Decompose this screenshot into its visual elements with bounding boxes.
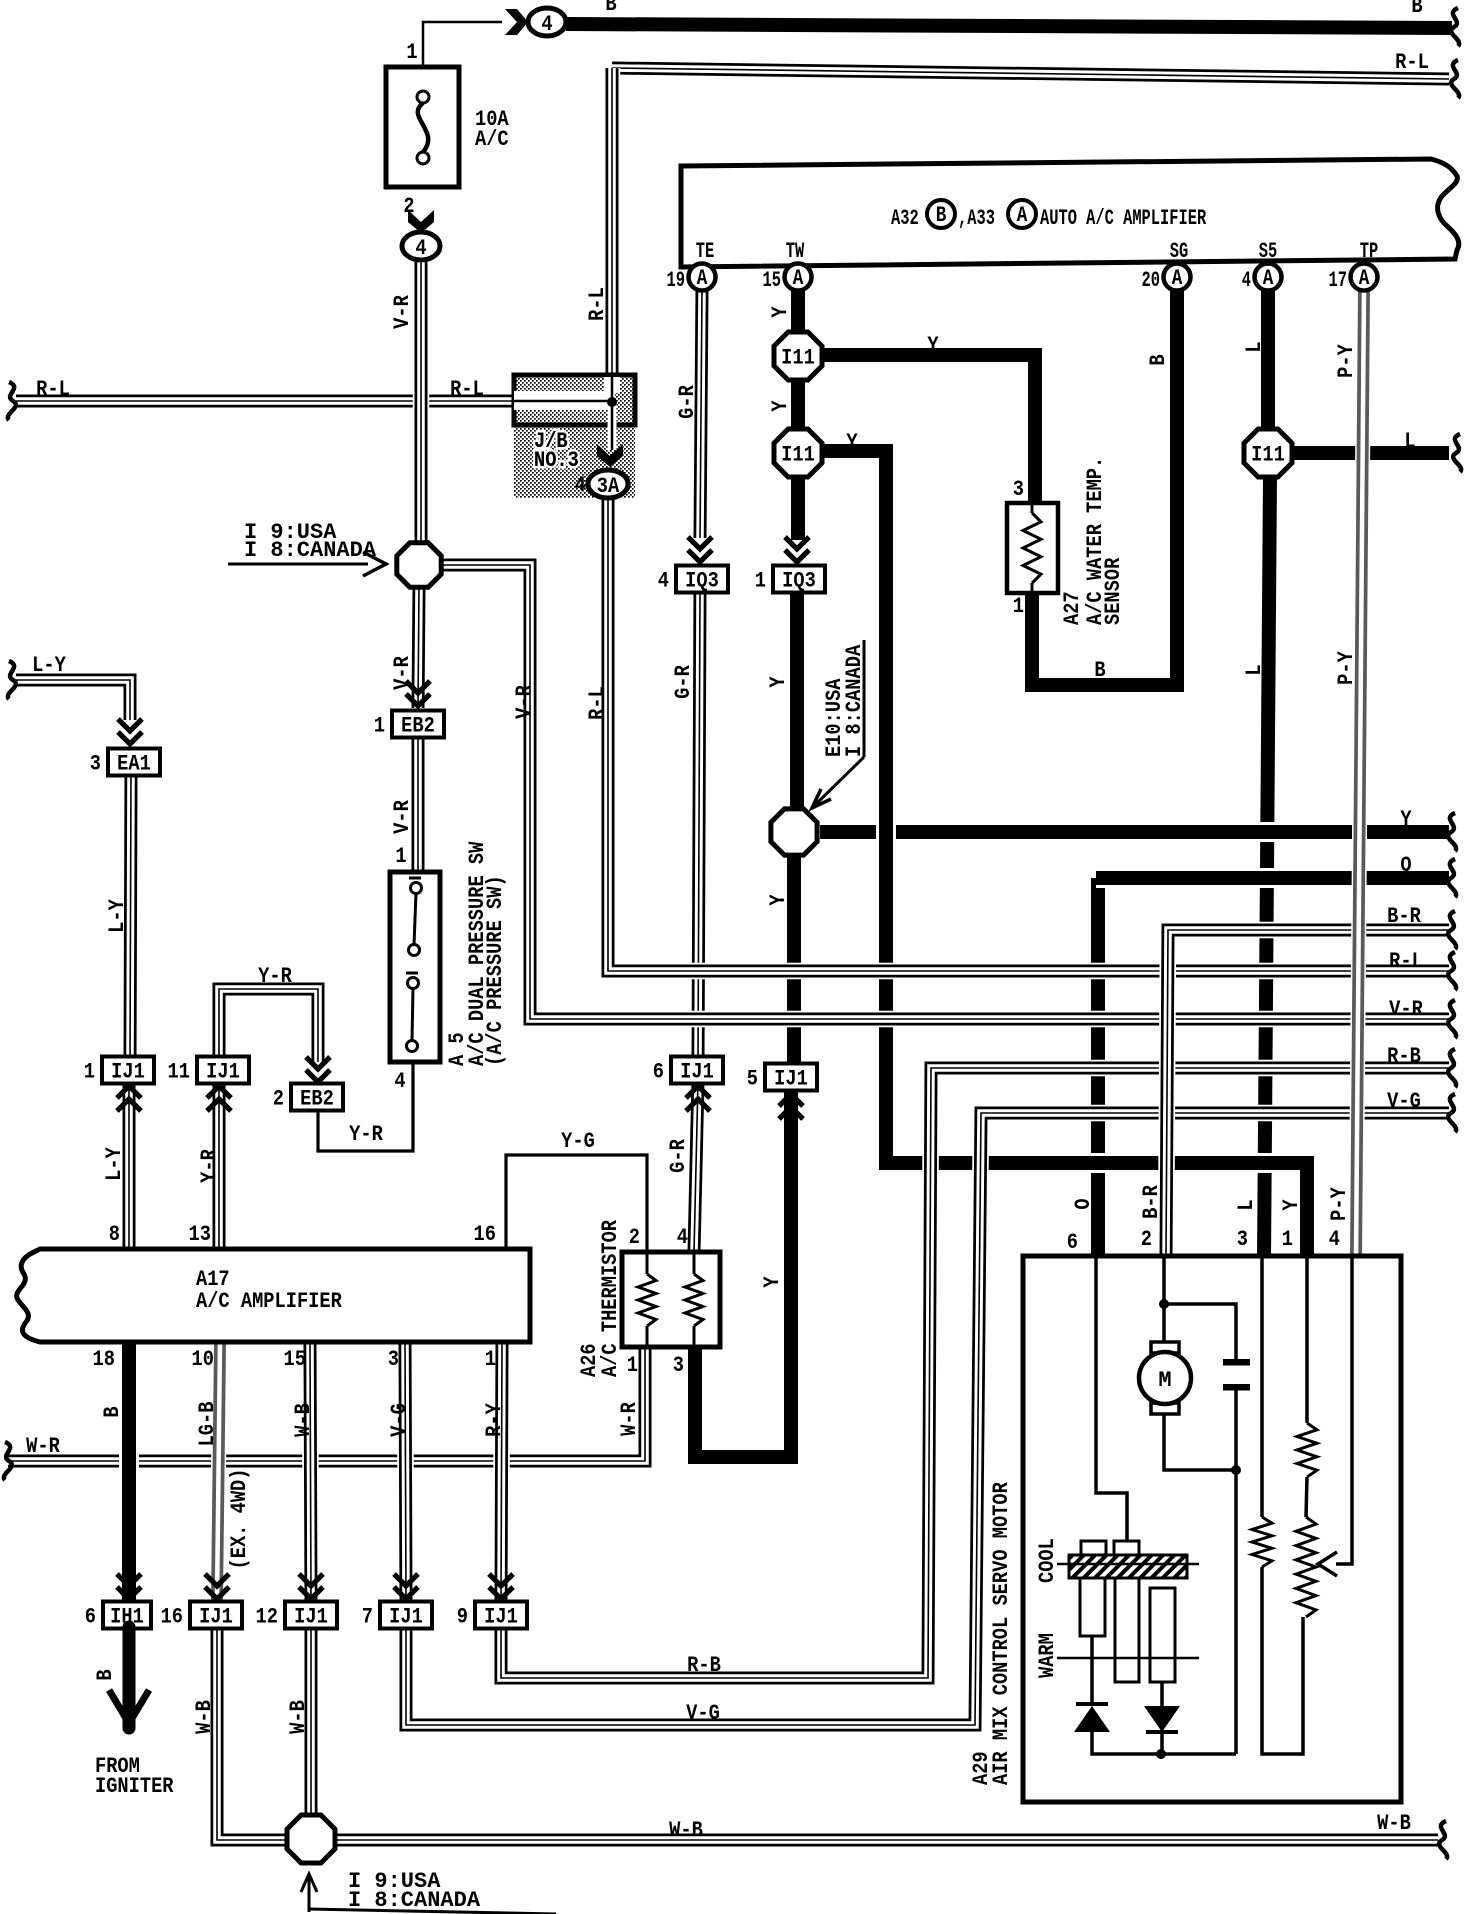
svg-text:B-R: B-R [1387,905,1421,930]
wire W-B from 16 IJ1 to junction octagon [217,1627,288,1840]
servo pin 1 line [1305,1256,1309,1423]
svg-text:A/C THERMISTOR: A/C THERMISTOR [599,1219,624,1377]
svg-text:R-B: R-B [1387,1045,1421,1070]
wire V-G from 7 IJ1 to right edge [406,1113,1449,1725]
wire W-R from left edge to thermistor pin 1 [8,1349,645,1461]
capacitor to bottom bus [1234,1390,1238,1754]
junction connector I11 on S5 line [1244,429,1292,477]
svg-text:S5: S5 [1259,238,1277,263]
arrow into 3 EA1 [118,719,142,744]
connector 6 IJ1 [653,1057,723,1086]
junction dot below capacitor [1231,1465,1241,1475]
svg-text:4: 4 [575,474,586,499]
svg-text:IJ1: IJ1 [206,1060,240,1085]
arrow into 4 IQ3 [688,537,712,562]
svg-text:IJ1: IJ1 [484,1605,518,1630]
wire Y-G from amplifier pin 16 to thermistor pin 2 [506,1155,647,1252]
svg-text:12: 12 [256,1605,278,1630]
svg-text:A: A [793,265,804,290]
wire B from amplifier pin 18 to 6 IH1 and igniter [119,1344,139,1620]
wire L from amplifier pin S5 4 to I11 [1258,290,1278,431]
motor bottom wire to junction [1164,1414,1236,1470]
svg-text:V-R: V-R [391,799,416,833]
svg-text:V-R: V-R [513,684,538,718]
wire V-R from 1 EB2 to dual pressure switch pin 1 [410,737,427,872]
wire Y from E10 octagon to right edge [820,822,1449,842]
svg-text:5: 5 [747,1067,758,1092]
wire V-R branch from octagon to right edge [443,565,1449,1019]
servo pin 3 line [1260,1256,1264,1517]
arrow into connector 3A [597,444,623,467]
svg-text:V-R: V-R [391,294,416,328]
junction I9/I8 octagon on V-R [397,543,441,587]
svg-text:TE: TE [696,238,714,263]
diode 2 to bus [1160,1732,1164,1754]
svg-text:IJ1: IJ1 [111,1060,145,1085]
svg-text:Y-G: Y-G [561,1130,595,1155]
right edge curl R-B [1448,1049,1456,1087]
resistor on pin 1 [1297,1423,1317,1477]
svg-text:1: 1 [627,1354,638,1379]
from-igniter arrow tail [109,1627,149,1728]
wire Y from I11 to servo motor pin 1 [822,451,1307,1258]
svg-text:L-Y: L-Y [103,1146,128,1180]
svg-text:L: L [1235,1199,1260,1210]
svg-text:SG: SG [1170,238,1188,263]
wire O vertical to servo motor pin 6 [1088,878,1108,1258]
svg-text:R-L: R-L [450,378,484,403]
callout E10:USA / I 8:CANADA [812,640,868,808]
svg-text:L-Y: L-Y [32,654,66,679]
arrow into 6 IJ1 [686,1086,710,1111]
pin 3 resistor to pot bottom [1262,1567,1303,1754]
svg-text:R-L: R-L [1395,51,1429,76]
svg-text:COOL: COOL [1036,1538,1061,1583]
servo pin 6 line to slider contact [1096,1256,1127,1541]
A26 resistor 2 [685,1274,703,1326]
svg-text:2: 2 [273,1087,284,1112]
amplifier pin 19 A (TE) [667,264,716,293]
connector 4 oval (top) [528,8,566,38]
svg-text:10: 10 [192,1348,214,1373]
svg-text:13: 13 [189,1223,211,1248]
svg-text:IJ1: IJ1 [680,1060,714,1085]
wire R-L from left edge to J/B No.3 [16,393,514,410]
svg-text:1: 1 [1282,1228,1293,1253]
A26 A/C thermistor [622,1252,720,1347]
junction I9/I8 octagon bottom [287,1815,335,1863]
svg-text:3: 3 [90,752,101,777]
svg-text:TP: TP [1360,238,1378,263]
svg-text:6: 6 [1067,1231,1078,1256]
wire from fuse pin 1 to connector 4 [423,22,502,86]
svg-text:WARM: WARM [1036,1633,1061,1678]
svg-text:19: 19 [667,267,685,292]
wire V-R from octagon to 1 EB2 [418,588,419,708]
svg-text:4: 4 [658,569,669,594]
svg-text:Y: Y [1400,808,1412,833]
wire Y-R from 2 EB2 to dual pressure switch pin 4 [318,1064,413,1151]
right edge curl V-R [1448,1000,1456,1038]
connector 12 IJ1 [256,1602,337,1631]
right edge curl R-L top [1451,60,1459,98]
wire W-B from 12 IJ1 to junction octagon [303,1627,320,1817]
svg-text:R-L: R-L [36,378,70,403]
right edge curl B [1451,8,1459,46]
connector 16 IJ1 [161,1602,242,1631]
svg-text:IJ1: IJ1 [294,1605,328,1630]
svg-text:IGNITER: IGNITER [95,1775,174,1800]
svg-text:A/C: A/C [475,128,509,153]
svg-text:(EX. 4WD): (EX. 4WD) [228,1469,253,1570]
svg-text:6: 6 [85,1605,96,1630]
svg-text:3: 3 [1013,478,1024,503]
svg-text:A: A [1263,265,1274,290]
junction dot bottom bus [1156,1749,1166,1759]
svg-text:L-Y: L-Y [106,898,131,932]
wire to capacitor [1164,1304,1236,1360]
svg-text:A: A [1017,202,1028,227]
svg-text:Y: Y [846,431,858,456]
wire Y from E10 octagon to 5 IJ1 [784,857,804,1063]
svg-text:I11: I11 [781,443,815,468]
svg-text:IQ3: IQ3 [685,569,719,594]
svg-text:6: 6 [653,1060,664,1085]
bottom bus [1092,1732,1236,1754]
svg-text:4: 4 [1329,1228,1340,1253]
wire W-B from junction octagon to right edge [336,1832,1438,1849]
svg-text:I 8:CANADA: I 8:CANADA [244,538,377,563]
svg-text:AIR MIX CONTROL SERVO MOTOR: AIR MIX CONTROL SERVO MOTOR [990,1481,1015,1785]
right edge curl R-L [1448,952,1456,990]
arrow into 1 EB2 [406,681,430,706]
svg-text:LG-B: LG-B [196,1402,221,1447]
wire O to right edge [1096,868,1449,888]
svg-text:R-B: R-B [687,1654,721,1679]
wire element3 to diode 2 [1160,1682,1164,1706]
wire Y from I11 to A27 sensor pin 3 [822,355,1035,503]
amplifier pin 17 A (TP) [1329,264,1378,293]
wire LG-B (EX.4WD) from amplifier pin 10 to 16 IJ1 [217,1344,220,1600]
arrow into 1 IQ3 [785,537,809,562]
connector 7 IJ1 [362,1602,432,1631]
arrow into 2 EB2 [306,1057,330,1082]
connector 11 IJ1 [168,1057,249,1086]
potentiometer resistor [1296,1517,1316,1617]
svg-text:L: L [1404,430,1415,455]
svg-text:IQ3: IQ3 [782,569,816,594]
svg-text:SENSOR: SENSOR [1102,557,1127,625]
svg-text:(A/C PRESSURE SW): (A/C PRESSURE SW) [484,875,509,1066]
resistor on pin 3 [1252,1517,1272,1567]
capacitor [1223,1359,1250,1391]
svg-text:L: L [1243,664,1268,675]
arrow into 5 IJ1 [779,1094,803,1119]
diode 2 (down) [1144,1706,1180,1732]
callout I 9:USA / I 8:CANADA [228,520,386,576]
wire V-G from amplifier pin 3 to 7 IJ1 [405,1344,406,1600]
wire B from fuse connector 4 to right edge [566,24,1452,28]
svg-text:W-B: W-B [292,1403,317,1437]
svg-text:O: O [1072,1198,1097,1209]
hatched slider bar [1057,1555,1199,1578]
wire R-L from junction block to right edge top [612,68,1449,79]
connector 5 IJ1 [747,1064,817,1093]
A27 resistor element [1023,513,1041,583]
svg-text:2: 2 [629,1226,640,1251]
svg-text:15: 15 [763,267,781,292]
arrow into 9 IJ1 [489,1574,513,1599]
svg-text:G-R: G-R [667,1138,692,1172]
svg-text:I 8:CANADA: I 8:CANADA [348,1888,481,1913]
link between resistors [1306,1477,1307,1517]
svg-text:R-L: R-L [586,686,611,720]
svg-text:1: 1 [84,1060,95,1085]
svg-text:L: L [1243,341,1268,352]
connector 1 IQ3 [755,566,825,595]
svg-text:A: A [1172,265,1183,290]
wire G-R from 6 IJ1 to thermistor pin 4 [694,1081,698,1252]
svg-text:1: 1 [395,845,406,870]
A26 resistor 1 [638,1274,656,1326]
right edge curl B-R [1448,911,1456,949]
left edge curl L-Y [8,661,16,699]
svg-text:W-B: W-B [1377,1812,1411,1837]
servo pin 4 line to wiper [1336,1256,1352,1564]
wire R-B from 9 IJ1 to right edge [501,1068,1449,1678]
svg-text:IJ1: IJ1 [199,1605,233,1630]
callout I 9:USA / I 8:CANADA bottom [301,1869,556,1914]
right edge curl W-B [1439,1821,1447,1859]
svg-text:NO.3: NO.3 [534,449,579,474]
wire Y from I11 to connector 1 IQ3 [788,477,808,540]
arrow into 1 IJ1 [117,1086,141,1111]
svg-text:AUTO A/C AMPLIFIER: AUTO A/C AMPLIFIER [1040,205,1207,230]
arrow into 11 IJ1 [207,1086,231,1111]
amplifier title text [891,200,1207,231]
svg-text:EA1: EA1 [117,752,151,777]
svg-text:B: B [1411,0,1422,20]
svg-text:B: B [101,1406,126,1417]
svg-text:B: B [1147,354,1172,365]
svg-text:3: 3 [673,1354,684,1379]
svg-text:7: 7 [362,1605,373,1630]
svg-text:V-G: V-G [1387,1090,1421,1115]
wire B-R from right edge to servo motor pin 2 [1166,930,1449,1258]
right edge curl L [1453,434,1461,472]
wire G-R from amplifier pin TE 19 to 4 IQ3 [700,290,702,538]
wire L-Y from 1 IJ1 to amplifier pin 8 [121,1082,138,1250]
arrow into 16 IJ1 [205,1574,229,1599]
A29 air mix control servo motor box [1023,1256,1401,1802]
wiper arrowhead [1318,1552,1337,1576]
A17 A/C amplifier box [17,1249,530,1342]
svg-text:Y: Y [767,894,792,906]
amplifier pin 20 A (SG) [1142,264,1191,293]
connector 2 EB2 [273,1084,343,1113]
arrow into connector 4 below fuse [408,210,434,233]
wire Y-R from 11 IJ1 to amplifier pin 13 [211,1082,228,1250]
wire R-L from J/B 3A connector to right edge [608,500,1449,971]
svg-text:Y: Y [769,306,794,318]
amplifier pin 4 A (S5) [1242,264,1282,293]
wire W-B from amplifier pin 15 to 12 IJ1 [310,1344,311,1600]
svg-text:20: 20 [1142,267,1160,292]
svg-text:A27: A27 [1061,591,1086,625]
wire Y-R from 11 IJ1 to 2 EB2 [219,989,318,1062]
svg-text:W-B: W-B [193,1700,218,1734]
motor M [1139,1342,1191,1414]
svg-text:IJ1: IJ1 [389,1605,423,1630]
svg-text:A: A [1359,265,1370,290]
svg-text:P-Y: P-Y [1328,1186,1353,1220]
svg-text:B-R: B-R [1140,1184,1165,1218]
svg-text:Y: Y [761,1276,786,1288]
wire P-Y from amplifier pin TP 17 to servo motor pin 4 [1356,290,1364,1258]
svg-text:A/C AMPLIFIER: A/C AMPLIFIER [196,1290,342,1315]
svg-text:I11: I11 [1251,443,1285,468]
svg-text:1: 1 [406,41,417,66]
arrow into connector 4 [505,9,528,35]
svg-text:O: O [1400,854,1411,879]
fuse 10A A/C [386,67,459,187]
svg-text:B: B [605,0,616,18]
svg-text:V-G: V-G [388,1403,413,1437]
connector 4 oval below fuse [402,232,440,262]
auto A/C amplifier A32/A33 box [681,159,1459,267]
svg-text:G-R: G-R [672,664,697,698]
svg-text:Y: Y [767,676,792,688]
wire L from I11 to right edge [1293,443,1449,463]
junction connector I11 upper [774,332,822,380]
connector 1 IJ1 [84,1057,154,1086]
servo pin 2 line to motor [1162,1256,1166,1342]
svg-text:W-R: W-R [26,1435,60,1460]
svg-text:I11: I11 [781,346,815,371]
svg-text:18: 18 [93,1348,115,1373]
svg-text:P-Y: P-Y [1335,343,1360,377]
svg-text:G-R: G-R [676,384,701,418]
svg-text:2: 2 [1141,1228,1152,1253]
svg-text:16: 16 [474,1223,496,1248]
svg-text:B: B [94,1669,119,1680]
wire L from I11 to servo motor pin 3 [1264,477,1270,1258]
junction connector I11 lower [774,429,822,477]
svg-text:Y-R: Y-R [198,1148,223,1182]
svg-text:W-B: W-B [669,1819,703,1844]
wire Y from 5 IJ1 to thermistor pin 3 [695,1090,791,1457]
svg-text:4: 4 [1242,267,1251,292]
svg-text:9: 9 [457,1605,468,1630]
svg-text:3: 3 [1237,1228,1248,1253]
svg-text:4: 4 [541,13,552,38]
svg-text:4: 4 [394,1070,405,1095]
svg-text:3A: 3A [597,475,620,500]
svg-text:IJ1: IJ1 [774,1067,808,1092]
connector 3A oval [588,470,628,500]
connector 9 IJ1 [457,1602,527,1631]
svg-text:17: 17 [1329,267,1347,292]
resistive elements [1080,1578,1175,1682]
arrow into 7 IJ1 [394,1574,418,1599]
svg-text:11: 11 [168,1060,190,1085]
wire Y from 1 IQ3 to E10 junction octagon [787,592,807,808]
wire Y between I11 junctions [788,380,808,430]
right edge curl O [1448,859,1456,897]
connector 3 EA1 [90,749,160,778]
diode 1 (up) [1074,1704,1110,1732]
junction dot at pin 2 [1159,1299,1169,1309]
svg-text:B: B [1094,659,1105,684]
wire V-R from fuse connector to junction octagon [413,260,430,542]
right edge curl Y [1448,813,1456,851]
svg-text:A32: A32 [891,205,919,230]
svg-text:8: 8 [109,1223,120,1248]
wire R-L vertical into J/B No.3 [604,68,621,380]
connector 6 IH1 [85,1602,151,1631]
svg-text:TW: TW [786,238,805,263]
A5 dual pressure switch [390,872,440,1062]
wire R-Y from amplifier pin 1 to 9 IJ1 [501,1344,502,1600]
svg-text:Y-R: Y-R [258,965,292,990]
svg-text:Y: Y [927,334,939,359]
left edge curl R-L [8,382,16,420]
svg-text:M: M [1158,1368,1171,1393]
wire B from A27 sensor pin 1 to amplifier pin SG 20 [1032,290,1177,685]
svg-text:P-Y: P-Y [1335,650,1360,684]
left edge curl W-R [4,1442,12,1480]
svg-text:A: A [697,265,708,290]
svg-text:Y: Y [769,400,794,412]
junction block J/B No.3 (shaded) [514,375,635,498]
svg-text:1: 1 [1013,595,1024,620]
svg-text:4: 4 [415,237,426,262]
warm line [1057,1657,1199,1660]
junction E10/I8 octagon [771,809,817,855]
svg-text:B: B [936,202,947,227]
svg-text:EB2: EB2 [401,714,435,739]
wire L-Y from 3 EA1 to 1 IJ1 [130,775,131,1060]
wire L-Y from left edge to 3 EA1 [16,680,130,720]
arrow into 6 IH1 [117,1574,141,1599]
A27 A/C water temp. sensor [1007,503,1058,593]
svg-text:R-Y: R-Y [483,1402,508,1436]
svg-text:Y: Y [1280,1199,1305,1211]
wire G-R from 4 IQ3 to 6 IJ1 [698,592,700,1060]
connector 4 IQ3 [658,566,728,595]
svg-text:EB2: EB2 [300,1087,334,1112]
svg-text:16: 16 [161,1605,183,1630]
connector 1 EB2 [374,711,444,740]
svg-text:R-L: R-L [586,287,611,321]
svg-text:4: 4 [677,1226,688,1251]
svg-text:,A33: ,A33 [958,205,995,230]
svg-text:V-R: V-R [1389,998,1423,1023]
wire element1 to diode 1 [1090,1636,1094,1702]
wire Y from amplifier pin TW 15 to I11 [788,288,808,334]
svg-text:V-G: V-G [686,1702,720,1727]
svg-text:15: 15 [284,1348,306,1373]
svg-text:1: 1 [485,1348,496,1373]
svg-text:3: 3 [388,1348,399,1373]
svg-text:W-B: W-B [287,1700,312,1734]
amplifier pin 15 A (TW) [763,264,812,293]
svg-text:1: 1 [755,569,766,594]
svg-text:R-L: R-L [1389,950,1423,975]
svg-text:Y-R: Y-R [349,1123,383,1148]
slider contacts [1081,1541,1139,1555]
right edge curl V-G [1448,1094,1456,1132]
